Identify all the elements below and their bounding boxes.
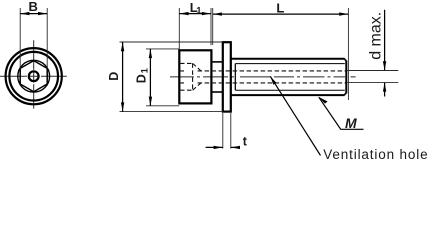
hidden lines: socket	[180, 63, 346, 90]
Ventilation hole arrow	[270, 76, 276, 84]
tip chamfer bottom	[344, 93, 346, 95]
svg-text:d max.: d max.	[368, 12, 385, 60]
t ext right	[230, 113, 232, 149]
d ext bottom	[347, 81, 398, 83]
hexagon socket	[20, 61, 47, 92]
L dim line	[213, 13, 349, 15]
washer outline	[223, 42, 231, 111]
thread minor dia bottom	[235, 89, 344, 91]
B dimension line	[20, 13, 47, 15]
D ext top	[120, 41, 223, 43]
D1 ext top	[146, 48, 179, 50]
D1 dim line	[149, 49, 151, 106]
tip face	[345, 61, 347, 94]
D1 dimension	[146, 49, 179, 106]
vent hole hidden top	[180, 70, 346, 72]
B extension line left	[19, 8, 21, 68]
svg-text:M: M	[345, 115, 357, 131]
D1 ext bottom	[146, 105, 179, 107]
tip chamfer top	[344, 59, 346, 61]
L1 ext left	[178, 8, 180, 50]
socket cone bottom hidden	[193, 83, 201, 90]
D arrow top	[121, 42, 124, 51]
head inner (knurl root) circle	[9, 52, 58, 101]
B arrow left	[20, 12, 29, 15]
t arrow left	[214, 146, 223, 149]
d arrow up	[383, 83, 386, 92]
t ext left	[222, 113, 224, 149]
socket chamfer circle	[18, 60, 50, 92]
t dim line right part	[231, 146, 238, 148]
L1 arrow left	[180, 12, 189, 15]
B extension line right	[46, 8, 48, 68]
d max dimension	[347, 10, 398, 97]
L1 dimension	[179, 8, 211, 50]
L arrow left	[213, 12, 222, 15]
head outer circle	[6, 48, 62, 104]
svg-text:1: 1	[139, 67, 150, 73]
svg-text:D: D	[107, 72, 121, 81]
L1 ext right	[210, 8, 212, 45]
main centerline (side view)	[170, 76, 356, 78]
t dim line left part	[206, 146, 223, 148]
vent hole circle	[29, 71, 39, 81]
L1 arrow right	[202, 12, 211, 15]
centerline horizontal (left view)	[0, 75, 67, 77]
t arrow right	[231, 146, 240, 149]
M leader	[319, 97, 364, 129]
svg-text:D: D	[135, 74, 149, 83]
thread OD bottom line	[231, 94, 345, 96]
svg-text:1: 1	[196, 6, 202, 17]
B arrow right	[38, 12, 47, 15]
svg-text:Ventilation hole: Ventilation hole	[323, 147, 428, 162]
svg-text:B: B	[29, 0, 38, 14]
Ventilation hole leader	[270, 76, 320, 155]
L ext right	[347, 8, 349, 100]
svg-text:L: L	[276, 0, 284, 15]
D ext bottom	[120, 111, 223, 113]
thread start vertical	[234, 64, 236, 91]
socket bottom face hidden	[192, 63, 194, 90]
D dimension	[120, 42, 223, 112]
L ext left	[212, 8, 214, 45]
neck top edge	[211, 61, 222, 63]
d dim line upper	[384, 10, 386, 70]
D arrow bottom	[121, 102, 124, 111]
t dimension	[206, 113, 239, 149]
socket flat bottom hidden	[180, 89, 193, 91]
L arrow right	[339, 12, 348, 15]
d dim line lower	[384, 83, 386, 97]
d arrow down	[383, 61, 386, 70]
L dimension	[213, 8, 349, 100]
D dim line	[122, 42, 124, 112]
centerline vertical (left view)	[33, 40, 35, 108]
socket flat top hidden	[180, 62, 193, 64]
thread OD top line	[231, 58, 345, 60]
head outline	[179, 50, 211, 103]
socket cone top hidden	[193, 63, 201, 71]
dimension B	[20, 8, 47, 68]
D1 arrow top	[149, 49, 152, 58]
d ext top	[347, 70, 398, 72]
M leader arrow	[319, 97, 328, 104]
neck bottom edge	[211, 91, 222, 93]
D1 arrow bottom	[149, 97, 152, 106]
label D1 (rotated)	[135, 67, 151, 83]
L1 dim line	[179, 13, 211, 15]
thread minor dia top	[235, 63, 344, 65]
vent hole hidden bottom	[180, 82, 346, 84]
